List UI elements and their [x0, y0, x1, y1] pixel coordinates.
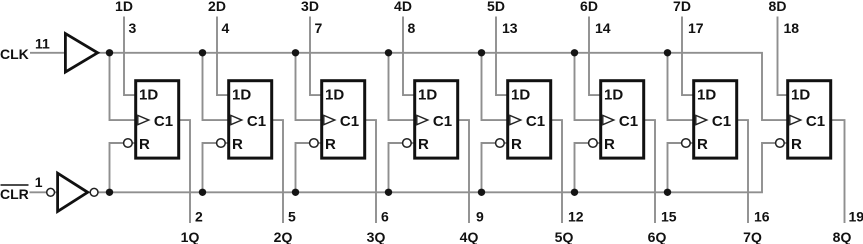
svg-text:C1: C1	[247, 113, 266, 130]
svg-text:3Q: 3Q	[367, 229, 386, 244]
svg-text:R: R	[325, 136, 336, 153]
svg-text:15: 15	[661, 208, 677, 224]
svg-text:C1: C1	[154, 113, 173, 130]
svg-text:7D: 7D	[673, 0, 691, 14]
svg-text:R: R	[604, 136, 615, 153]
svg-text:1D: 1D	[511, 87, 530, 104]
svg-text:5Q: 5Q	[555, 229, 574, 244]
svg-text:1D: 1D	[232, 87, 251, 104]
svg-text:16: 16	[754, 208, 770, 224]
svg-text:7: 7	[315, 20, 323, 36]
svg-text:6Q: 6Q	[648, 229, 667, 244]
svg-text:1D: 1D	[418, 87, 437, 104]
svg-text:2D: 2D	[208, 0, 226, 14]
svg-text:C1: C1	[433, 113, 452, 130]
svg-text:1D: 1D	[791, 87, 810, 104]
svg-text:5D: 5D	[487, 0, 505, 14]
svg-text:2: 2	[195, 208, 203, 224]
svg-text:C1: C1	[619, 113, 638, 130]
svg-text:14: 14	[595, 20, 611, 36]
svg-text:4D: 4D	[394, 0, 412, 14]
svg-text:1: 1	[35, 174, 43, 190]
svg-text:1D: 1D	[604, 87, 623, 104]
svg-text:R: R	[697, 136, 708, 153]
svg-text:8D: 8D	[769, 0, 787, 14]
svg-text:C1: C1	[806, 113, 825, 130]
svg-text:R: R	[139, 136, 150, 153]
svg-text:7Q: 7Q	[743, 229, 762, 244]
svg-text:6: 6	[381, 208, 389, 224]
svg-text:6D: 6D	[580, 0, 598, 14]
svg-text:1Q: 1Q	[181, 229, 200, 244]
svg-text:12: 12	[568, 208, 584, 224]
svg-text:R: R	[791, 136, 802, 153]
svg-text:2Q: 2Q	[274, 229, 293, 244]
svg-text:18: 18	[784, 20, 800, 36]
svg-text:17: 17	[688, 20, 704, 36]
svg-text:1D: 1D	[115, 0, 133, 14]
svg-text:R: R	[232, 136, 243, 153]
svg-text:1D: 1D	[325, 87, 344, 104]
svg-text:13: 13	[502, 20, 518, 36]
svg-text:1D: 1D	[139, 87, 158, 104]
svg-text:4Q: 4Q	[460, 229, 479, 244]
svg-text:5: 5	[288, 208, 296, 224]
svg-text:C1: C1	[340, 113, 359, 130]
svg-text:19: 19	[849, 208, 863, 224]
svg-text:R: R	[511, 136, 522, 153]
svg-text:8Q: 8Q	[833, 229, 852, 244]
svg-text:C1: C1	[712, 113, 731, 130]
svg-text:4: 4	[222, 20, 230, 36]
svg-text:CLR: CLR	[0, 186, 29, 202]
svg-text:8: 8	[408, 20, 416, 36]
svg-text:3: 3	[129, 20, 137, 36]
svg-text:R: R	[418, 136, 429, 153]
svg-text:1D: 1D	[697, 87, 716, 104]
svg-text:11: 11	[35, 35, 50, 51]
svg-text:3D: 3D	[301, 0, 319, 14]
svg-text:9: 9	[476, 208, 484, 224]
svg-text:C1: C1	[526, 113, 545, 130]
svg-text:CLK: CLK	[0, 46, 29, 62]
